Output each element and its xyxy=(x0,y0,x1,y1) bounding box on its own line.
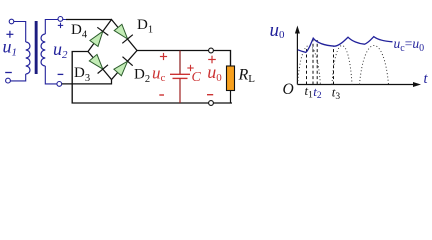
svg-text:u1: u1 xyxy=(3,36,18,58)
terminal output minus xyxy=(209,101,214,106)
bridge diamond xyxy=(88,20,137,80)
wire bridge right vertex to DC plus rail xyxy=(137,51,231,67)
y axis xyxy=(296,30,298,85)
svg-text:uc=u0: uc=u0 xyxy=(394,36,425,54)
plus capacitor xyxy=(187,65,193,71)
transformer core xyxy=(35,21,38,74)
transformer secondary winding xyxy=(41,34,45,66)
minus primary xyxy=(5,72,12,74)
minus secondary xyxy=(58,73,64,75)
svg-text:D2: D2 xyxy=(134,67,150,86)
svg-text:D4: D4 xyxy=(71,22,88,40)
plus uc xyxy=(160,53,167,60)
wire RL bottom lead xyxy=(230,91,232,104)
svg-text:u0: u0 xyxy=(270,20,286,41)
plus secondary xyxy=(58,23,63,28)
minus output xyxy=(207,94,213,96)
curve uc=uo solid xyxy=(298,37,393,53)
diode D4 xyxy=(90,27,108,46)
diode D3 xyxy=(89,54,108,73)
terminal secondary top xyxy=(58,17,63,22)
wire AC bottom to bridge bottom vertex xyxy=(62,80,112,84)
resistor RL xyxy=(227,66,235,91)
capacitor C bottom lead xyxy=(179,78,181,103)
plus primary xyxy=(6,31,13,38)
wire secondary bottom lead xyxy=(45,66,57,84)
capacitor C top lead xyxy=(179,51,181,75)
minus uc xyxy=(159,94,164,96)
svg-text:t1: t1 xyxy=(305,83,314,100)
diode D1 xyxy=(114,24,133,43)
dashed vertical peak xyxy=(312,39,314,85)
svg-text:t: t xyxy=(424,71,429,87)
svg-text:u2: u2 xyxy=(53,39,68,61)
svg-text:O: O xyxy=(283,81,294,98)
wire primary bottom xyxy=(10,74,25,81)
dashed vertical t1 xyxy=(306,48,308,85)
plus output xyxy=(208,56,216,64)
capacitor C plates xyxy=(170,73,190,75)
terminal output plus xyxy=(209,48,214,53)
terminal top-left primary xyxy=(9,19,14,24)
svg-text:uc: uc xyxy=(152,63,166,84)
svg-text:D1: D1 xyxy=(137,17,153,35)
svg-text:RL: RL xyxy=(238,66,256,85)
transformer primary winding xyxy=(26,42,30,74)
wire secondary top lead xyxy=(45,20,66,35)
dashed vertical t3 xyxy=(333,46,335,84)
t axis xyxy=(297,84,416,86)
wire primary top xyxy=(14,22,26,43)
svg-text:D3: D3 xyxy=(74,65,90,84)
svg-text:t2: t2 xyxy=(313,84,322,101)
diode D2 xyxy=(114,57,133,76)
svg-text:u0: u0 xyxy=(207,62,222,84)
svg-text:t3: t3 xyxy=(332,85,341,102)
dashed vertical t2 xyxy=(316,40,318,85)
terminal secondary bottom xyxy=(57,82,62,87)
dotted rectified sine humps xyxy=(298,46,389,85)
terminal bottom-left primary xyxy=(6,78,11,83)
wire AC top to bridge top vertex xyxy=(66,19,112,21)
wire bridge left vertex to DC minus rail xyxy=(72,52,232,104)
svg-text:C: C xyxy=(192,70,202,85)
